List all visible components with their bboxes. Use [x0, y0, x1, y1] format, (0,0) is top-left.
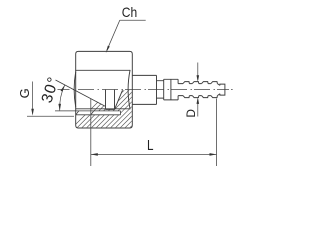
- hatching (section): [68, 88, 174, 132]
- svg-text:G: G: [17, 88, 32, 98]
- bore vertical stub right: [114, 90, 116, 110]
- L dimension line with arrows: [91, 153, 217, 156]
- thread bevel at seat plane: [91, 111, 94, 115]
- G extension line: [27, 115, 74, 117]
- D dimension arrows: [197, 63, 200, 117]
- bore vertical stub left: [105, 90, 107, 110]
- thread end vertical: [120, 111, 122, 115]
- stem cylinder: [157, 81, 164, 98]
- groove lines top: [178, 83, 211, 85]
- hex right face chamfer arc: [128, 70, 130, 109]
- tip ridge: [220, 84, 225, 95]
- svg-text:L: L: [147, 138, 154, 154]
- svg-text:D: D: [184, 109, 198, 118]
- thread root line: [76, 114, 121, 116]
- hex body outline: [74, 51, 132, 128]
- bore line: [106, 108, 115, 110]
- 30 deg cone chamfer line: [56, 80, 106, 106]
- collar ring 1 and 2: [164, 79, 178, 100]
- thread crest line: [55, 110, 121, 112]
- Ch leader with arrow: [106, 20, 146, 53]
- thread entry bevel: [76, 111, 79, 115]
- groove lines bottom: [178, 95, 211, 97]
- ridge 1: [183, 82, 189, 98]
- svg-text:Ch: Ch: [122, 4, 137, 20]
- ridge 4: [211, 82, 218, 98]
- hex facet line lower: [76, 108, 130, 110]
- hose barb ridges: [178, 82, 225, 98]
- neck cylinder: [132, 75, 178, 104]
- bore step diagonal: [115, 90, 123, 109]
- L extension line right: [216, 99, 218, 167]
- centerline: [58, 89, 233, 91]
- hex facet line upper: [76, 69, 130, 71]
- G dimension line with arrow: [31, 82, 34, 116]
- L extension line left: [90, 99, 92, 166]
- internal section lines: [55, 80, 123, 115]
- tip taper: [217, 84, 220, 96]
- 30 deg dimension arc: [58, 85, 65, 111]
- ridge 3: [202, 82, 209, 98]
- hex left silhouette bulge: [74, 72, 76, 107]
- ridge 2: [192, 82, 199, 98]
